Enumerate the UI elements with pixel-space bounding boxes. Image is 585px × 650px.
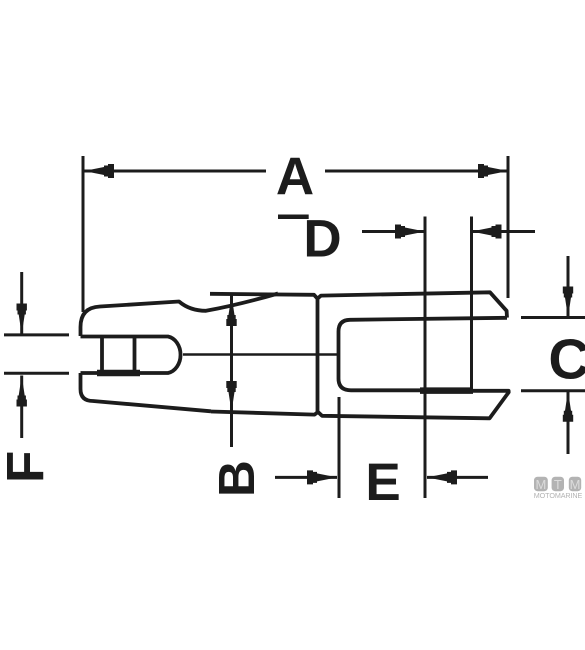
svg-text:T: T [554,477,562,492]
svg-text:MOTOMARINE: MOTOMARINE [534,491,583,500]
svg-text:B: B [208,460,265,497]
svg-text:M: M [535,477,546,492]
svg-text:C: C [548,328,585,392]
svg-text:F: F [0,451,56,483]
svg-text:M: M [570,477,581,492]
svg-text:D: D [303,210,341,269]
svg-text:E: E [365,453,400,512]
svg-text:A: A [276,148,314,207]
